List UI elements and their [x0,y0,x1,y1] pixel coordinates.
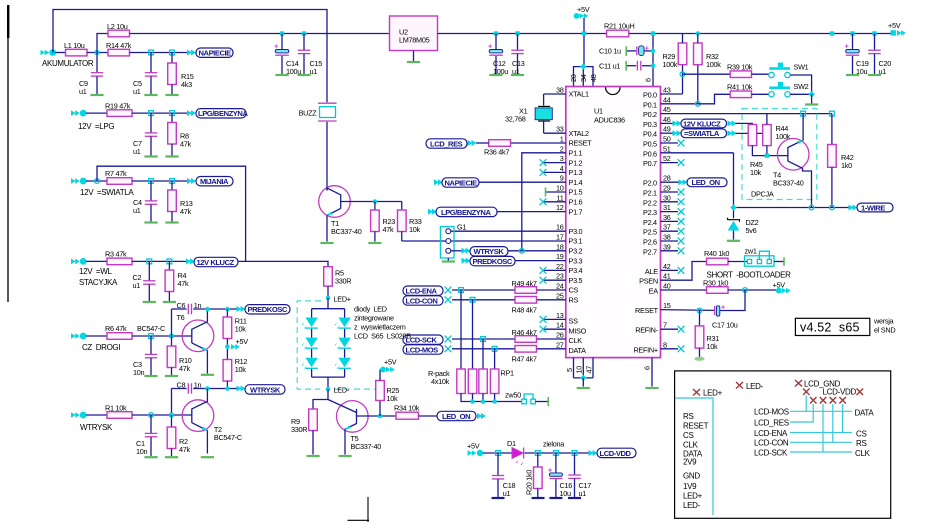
wire R44 top to P0.2 node [766,114,768,125]
svg-text:12V KLUCZ: 12V KLUCZ [683,119,721,128]
svg-text:CS: CS [683,431,694,440]
svg-text:+5V: +5V [888,21,901,30]
LED D row3 left [301,358,317,370]
svg-text:BUZZ: BUZZ [299,109,318,118]
resistor R15 [171,53,173,64]
junction R41 branch [695,101,700,106]
resistor R47 4k7 [515,346,537,353]
capacitor C3 [150,336,152,354]
pin 39 P2.7 [661,250,679,252]
ground R20 [532,497,545,499]
svg-text:28: 28 [663,174,671,183]
power +5V at R25 [379,370,381,381]
svg-text:31: 31 [663,203,671,212]
svg-text:P0.0: P0.0 [643,91,657,100]
version box [795,318,869,335]
resistor R49 4k7 [515,287,537,294]
pin 24 CS via R49 [452,289,515,291]
ground C13 [511,74,524,76]
svg-text:6: 6 [644,78,653,82]
svg-text:6: 6 [643,366,652,370]
svg-text:R48 4k7: R48 4k7 [512,306,537,315]
svg-text:100k: 100k [663,60,678,69]
svg-text:P1.7: P1.7 [569,207,583,216]
wire D1 to LCD-VDD [525,452,590,454]
svg-text:2: 2 [560,144,564,153]
svg-text:37: 37 [663,223,671,232]
power +5V tap between R11 and R12 [225,345,230,350]
svg-text:zielona: zielona [543,440,565,449]
pin 22 P3.4 [544,269,566,271]
svg-text:4: 4 [560,164,564,173]
wire +5V rail from L2 to U2 [130,33,390,35]
junction C15 top [302,31,306,35]
svg-text:R47 4k7: R47 4k7 [512,355,537,364]
capacitor C1 [150,415,152,433]
wire LED bottom bus [311,369,313,377]
regulator U2 LM78M05 [390,16,438,51]
pin 8 REFIN+ [661,348,679,350]
wire SCK drop [822,404,824,452]
svg-text:zw50: zw50 [505,391,521,400]
pin 3 P1.2 [544,162,566,164]
resistor R14 [108,49,130,56]
wire LCD-SCK row [790,451,852,453]
pin 9 P1.4 from NAPIECIE [479,181,566,183]
svg-text:PSEN: PSEN [639,277,658,286]
pin 18 P3.2 from WTRYSK [508,250,566,252]
resistor R4 [168,261,170,270]
svg-text:LCD_RES: LCD_RES [430,139,463,148]
svg-text:wersja: wersja [873,317,895,326]
inductor L1 [66,49,88,56]
capacitor C5 [150,53,152,73]
pin 49 P0.4 [661,132,674,134]
svg-text:36: 36 [663,213,671,222]
pin 23 P3.5 [544,279,566,281]
svg-text:EA: EA [649,287,659,296]
svg-text:P0.4: P0.4 [643,130,657,139]
svg-text:27: 27 [556,340,564,349]
ground C4 [144,222,157,224]
junction C4 top [149,179,154,184]
svg-text:diody LED: diody LED [354,305,387,314]
node LED+ [326,296,331,301]
junction R10 top [169,334,173,338]
junction R42 on 1-WIRE [830,205,835,210]
net label 12V KLUCZ right [673,120,682,126]
pin 27 DATA via R47 [452,348,515,350]
U1 bottom ground bracket pins 5/10/47 [574,358,594,378]
ground C12 [489,74,502,76]
transistor T2 [182,400,214,432]
svg-text:R40 1k0: R40 1k0 [704,249,729,258]
inductor R21 10uH [607,30,629,37]
pin 51 P0.6 [661,152,734,154]
svg-text:u1: u1 [310,67,318,76]
svg-text:25: 25 [556,291,564,300]
svg-text:LPG/BENZYNA: LPG/BENZYNA [198,109,248,118]
resistor R19 [107,110,132,117]
net label 12V KLUCZ [194,257,238,266]
svg-text:NAPIECIE: NAPIECIE [199,49,232,58]
svg-text:15: 15 [663,301,671,310]
wire G1 pin3 stub to WTRYSK arrow [451,250,462,252]
svg-text:G1: G1 [457,223,466,232]
svg-text:L1 10u: L1 10u [64,41,85,50]
svg-text:51: 51 [663,144,671,153]
junction R25 bottom [378,414,383,419]
wire R-pack riser 2 [472,300,474,369]
svg-text:10k: 10k [707,342,719,351]
resistor R20 1k0 vertical label [537,453,539,467]
svg-text:=SWIATLA: =SWIATLA [684,129,720,138]
input 12V =LPG arrows [71,110,87,117]
svg-text:u1: u1 [503,489,511,498]
net label WTRYSK left [245,385,285,394]
svg-text:R3 47k: R3 47k [105,250,127,259]
resistor R42 1k0 [831,114,833,145]
svg-text:U1: U1 [594,107,603,116]
pin 30 P2.2 [661,201,679,203]
arrow 1-WIRE [849,205,858,211]
capacitor C16 electrolytic [555,453,557,473]
resistor R30 1k0 [707,287,729,294]
buzzer BUZZ bottom plate [318,120,337,122]
wire R-pack riser 3 [482,339,484,369]
svg-text:24: 24 [556,282,564,291]
wire R1 to T2 base [132,414,192,416]
svg-text:10: 10 [556,184,564,193]
wire P0.6 down to 1-WIRE and DZ2 [733,153,735,219]
svg-text:R1 10k: R1 10k [105,404,127,413]
svg-text:P1.4: P1.4 [569,178,583,187]
ground C19 [846,74,859,76]
wire bracket to ground [582,378,584,387]
ground C2 [143,301,156,303]
resistor R12 [223,360,232,382]
resistor R9 330R [309,409,318,431]
svg-text:SW1: SW1 [794,63,809,72]
svg-text:P2.1: P2.1 [643,189,657,198]
resistor R11 [226,309,228,317]
svg-text:14: 14 [556,321,564,330]
junction circle loop takeoff [95,179,100,184]
ground T5 emitter [338,455,351,457]
svg-text:42: 42 [663,262,671,271]
pin 11 P1.6 [544,201,566,203]
input AKUMULATOR arrows [41,49,57,56]
arrow to PREDKOSC [237,306,246,312]
wire SW1 to common [790,75,811,94]
wire LCD-ENA row [790,432,852,434]
LED D row2 right [334,338,350,350]
svg-text:T6: T6 [177,313,185,322]
svg-text:5: 5 [565,368,574,372]
svg-text:z wyswietlaczem: z wyswietlaczem [354,323,406,332]
net label 1-WIRE [857,203,893,212]
svg-text:DPCJA: DPCJA [751,190,774,199]
resistor R44 100k [763,125,772,146]
ground C18 [492,497,505,499]
svg-text:8: 8 [663,340,667,349]
pin 38 P2.6 [661,240,679,242]
svg-text:CS: CS [856,429,867,438]
svg-text:13: 13 [556,311,564,320]
svg-text:16: 16 [556,223,564,232]
svg-text:P3.1: P3.1 [569,237,583,246]
svg-text:P2.0: P2.0 [643,179,657,188]
pin 16 P3.0 from G1 [448,230,566,232]
svg-text:REFIN+: REFIN+ [633,345,657,354]
svg-text:BC337-40: BC337-40 [773,179,804,188]
wire R19 to LPG/BENZYNA label [132,112,188,114]
pin 2 P1.1 [522,153,566,251]
resistor R41 10k [730,91,751,98]
svg-text:u1: u1 [133,147,141,156]
wire +5V to D1 [483,452,512,454]
svg-text:47: 47 [584,366,593,374]
pin 6 bottom ground [651,358,653,387]
svg-text:RESET: RESET [569,139,593,148]
wire LCD_RES arrow to R36 [476,142,489,144]
wire R-pack riser 4 [494,349,496,369]
resistor R23 [374,202,376,211]
svg-text:LCD-SCK: LCD-SCK [754,448,788,457]
capacitor C17 10u [714,306,716,315]
svg-text:CLK: CLK [855,449,871,458]
junction R8 top [170,111,175,116]
resistor R10 [171,336,173,346]
arrow to LPG/BENZYNA [187,110,196,116]
pin 4 P1.3 [544,171,566,173]
pin 42 ALE [661,269,679,271]
ground R9 [306,455,319,457]
svg-text:u1: u1 [133,281,141,290]
pin mark LCD_GND [795,380,802,387]
wire LED- to R9 and T5 [313,389,328,409]
net label LCD_RES [426,139,467,148]
junction 1-WIRE left [730,204,736,210]
junction C17b top [572,451,577,456]
svg-text:LCD-ENA: LCD-ENA [754,429,788,438]
junction T4 collector riser [801,111,806,116]
wire LCD-CON row [790,441,852,443]
wire LED col links row2-3 [311,349,313,358]
svg-text:34: 34 [579,74,588,82]
U1 notch [606,87,621,94]
svg-text:WTRYSK: WTRYSK [80,423,113,432]
svg-text:LCD S65 LS020B: LCD S65 LS020B [354,332,411,341]
wire L1 to R14 [87,52,108,54]
pin 19 P3.3 from PREDKOSC [515,260,566,262]
svg-text:u1: u1 [579,489,587,498]
pin 15 RESET right [661,309,715,312]
svg-text:ALE: ALE [645,267,658,276]
ground DZ2 [727,240,740,242]
svg-text:P0.3: P0.3 [643,120,657,129]
svg-text:+5V: +5V [236,337,249,346]
svg-text:10k: 10k [750,168,762,177]
ground C17b [568,497,581,499]
junction R-pack 4 on DATA row [492,346,497,351]
junction R42 rail takeoff [830,31,834,35]
wire R40 to zw1 [728,261,747,263]
svg-text:32,768: 32,768 [505,115,526,124]
ground C3 [144,375,157,377]
svg-text:P3.4: P3.4 [569,266,583,275]
ground C20 [868,74,881,76]
no-connect tick zw50 [547,397,549,406]
svg-text:+5V: +5V [467,442,480,451]
junction SW common [808,91,814,97]
resistor R29 100k [682,65,684,94]
svg-text:47k: 47k [180,207,192,216]
capacitor C17b [574,453,576,475]
svg-text:46: 46 [663,115,671,124]
wire R6 to T6 base [132,335,192,337]
inductor L2 [108,30,130,37]
op-amp U1 ADUC836 body [566,87,661,358]
wire LCD_RES row [790,404,813,422]
capacitor C9 [96,53,98,73]
svg-text:47k: 47k [383,225,395,234]
ground C5 [144,94,157,96]
junction T6 collector on C6 row [205,307,210,312]
wire T5 base to R34 [357,415,397,417]
net label WTRYSK right [462,248,471,254]
svg-text:1: 1 [560,135,564,144]
wire LCD-GND drop to MOS row [805,396,807,412]
LED D row1 right [334,318,350,330]
pin 7 REFIN- [661,328,679,330]
wire zw50 to end [535,401,548,403]
pin 29 P2.1 [661,191,679,193]
wire R3 to 12V KLUCZ label [132,260,188,262]
capacitor C14 electrolytic [281,34,283,50]
junction C10 right [651,49,656,54]
ground C7 [144,156,157,158]
wire to R39 [683,73,731,75]
svg-text:10u: 10u [560,489,572,498]
pin 40 EA to R30 [661,289,707,291]
wire LCD-MOS row [790,410,852,412]
transistor T1 [319,186,351,218]
wire zw1 to tick [774,261,784,263]
junction R4 top [167,259,172,264]
svg-text:38: 38 [556,86,564,95]
wire buzzer to T1 collector [326,122,328,191]
resistor R34 10k [396,412,419,419]
wire R-pack riser 1 [460,290,462,369]
pin mark below LCD_GND [803,389,810,396]
svg-text:26: 26 [556,331,564,340]
no-connect tick zw1 [783,257,785,265]
pin mark LCD-VDD [857,389,864,396]
resistor R7 [107,178,132,185]
LED D row2 left [301,338,317,350]
svg-text:LED+: LED+ [334,295,351,304]
svg-text:WTRYSK: WTRYSK [250,385,281,394]
input 12V =WL STACYJKA arrows [71,258,87,265]
svg-text:R19 47k: R19 47k [105,102,131,111]
svg-text:el SND: el SND [874,326,895,335]
net label LCD-SCK [403,335,443,344]
transistor T6 [182,320,214,352]
junction T2 collector on C8 row [205,386,210,391]
svg-text:CLK: CLK [683,441,699,450]
resistor R33 [401,202,403,211]
svg-text:40: 40 [663,282,671,291]
wire LED+ to LED bus [327,298,329,309]
arrow to NAPIECIE [187,50,196,56]
capacitor C15 [303,34,305,51]
wire +5V rail U2 output to far right [438,33,892,35]
svg-text:44: 44 [663,95,671,104]
node LED- [326,387,331,392]
junction C20 top [872,31,876,35]
capacitor C4 [150,181,152,201]
svg-text:LCD-CON: LCD-CON [754,439,789,448]
wire =SWIATLA to R44 [736,132,763,134]
svg-text:LED-: LED- [683,501,701,510]
junction R13 top [170,179,175,184]
svg-text:CS: CS [569,286,579,295]
ground C9 [90,94,103,96]
arrow to 12V KLUCZ [186,258,195,264]
resistor R2 [171,415,173,427]
G1 pin 1 [446,229,451,234]
wire R45/R44 bottoms to T4 base [752,146,788,156]
ground R31 [694,357,704,361]
wire SW2 to common [790,93,811,95]
svg-text:P1.3: P1.3 [569,168,583,177]
junction C3 top [149,334,154,339]
svg-text:39: 39 [663,242,671,251]
wire R41 to SW2 [752,93,770,95]
net label NAPIECIE right [434,179,443,185]
svg-text:22: 22 [556,262,564,271]
svg-text:BC547-C: BC547-C [137,324,165,333]
ground U2 [413,51,415,62]
resistor R31 10k [699,311,701,326]
svg-text:52: 52 [663,154,671,163]
U1 power pins bracket 20/34/48 [574,67,594,87]
net label NAPIECIE [196,48,233,57]
svg-text:RESET: RESET [635,306,659,315]
zener DZ2 5v6 [728,218,740,222]
junction R-pack 3 on CLK row [481,337,486,342]
svg-text:LPG/BENZYNA: LPG/BENZYNA [441,208,491,217]
svg-text:GND: GND [683,472,700,481]
connector G1 [440,227,454,258]
pin 31 P2.3 [661,211,679,213]
svg-text:9: 9 [560,174,564,183]
svg-text:v4.52 s65: v4.52 s65 [800,321,860,335]
ground SW common [811,94,813,103]
svg-text:u1: u1 [79,87,87,96]
junction R12 bottom on C8 row [225,386,230,391]
svg-text:CZ DROGI: CZ DROGI [82,343,120,352]
pin mark LED- [736,382,743,389]
pin 14 MISO [544,328,566,330]
LED D row1 left [301,318,317,330]
ground C14 [275,74,288,76]
svg-text:10k: 10k [387,394,399,403]
svg-text:330R: 330R [291,425,307,434]
svg-text:AKUMULATOR: AKUMULATOR [42,59,94,68]
pin 52 P0.7 [661,162,679,164]
